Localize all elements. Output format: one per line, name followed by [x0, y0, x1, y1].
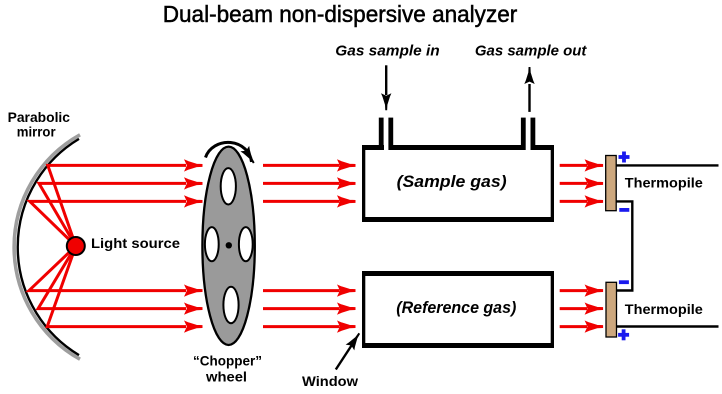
svg-text:Thermopile: Thermopile	[625, 175, 703, 191]
gas outlet stub	[521, 118, 526, 150]
beam ray 1 segment to thermopile	[560, 164, 587, 167]
thermopile 1 bar	[606, 156, 617, 211]
gas sample in arrow	[385, 65, 387, 95]
beam ray 4 segment to thermopile	[560, 289, 587, 292]
ray 3	[30, 201, 186, 246]
beam ray 6 segment after chopper	[263, 325, 340, 328]
thermopile 2 wire	[617, 325, 719, 327]
svg-text:(Sample gas): (Sample gas)	[397, 172, 507, 191]
ray 2	[39, 183, 186, 246]
beam ray 5 segment after chopper	[263, 307, 340, 310]
plus sign upper	[619, 152, 630, 163]
chopper hole left	[205, 227, 219, 261]
beam ray 1 segment after chopper	[263, 164, 340, 167]
svg-text:Window: Window	[302, 373, 358, 389]
svg-text:Light source: Light source	[91, 235, 180, 251]
minus sign upper	[619, 208, 629, 212]
chopper hole bottom	[223, 287, 238, 323]
chopper wheel disk	[202, 147, 254, 345]
light source	[67, 237, 85, 255]
svg-text:Gas sample out: Gas sample out	[475, 43, 588, 60]
parabolic mirror (gray band)	[14, 135, 80, 359]
thermopile 2 bar	[606, 282, 617, 337]
beam ray 2 segment to thermopile	[560, 182, 587, 185]
ray 5	[38, 246, 186, 309]
beam ray 3 segment to thermopile	[560, 200, 587, 203]
svg-text:Gas sample in: Gas sample in	[335, 43, 439, 60]
beam ray 4 segment after chopper	[263, 289, 340, 292]
svg-text:Thermopile: Thermopile	[625, 301, 703, 317]
beam ray 3 segment after chopper	[263, 200, 340, 203]
gas inlet stub	[379, 118, 384, 150]
beam ray 2 segment after chopper	[263, 182, 340, 185]
gas sample out arrow	[528, 84, 530, 112]
ray 4	[29, 246, 186, 291]
beam ray 6 segment to thermopile	[560, 325, 587, 328]
rotation arrow	[206, 142, 252, 162]
ray 1	[48, 165, 186, 246]
chopper hole top	[221, 168, 236, 204]
ray 6	[47, 246, 186, 327]
svg-text:(Reference gas): (Reference gas)	[396, 298, 516, 317]
thermopile 1 wires	[616, 164, 719, 166]
minus sign lower	[619, 280, 629, 284]
reference chamber walls	[362, 271, 554, 348]
svg-text:wheel: wheel	[205, 368, 247, 384]
light rays (red), each: diagonal from source + horizontal segment + arrowheads	[29, 160, 603, 332]
parabolic mirror (black face)	[18, 139, 79, 355]
svg-text:Dual-beam non-dispersive analy: Dual-beam non-dispersive analyzer	[163, 1, 518, 27]
chopper axle dot	[226, 242, 232, 248]
beam ray 5 segment to thermopile	[560, 307, 587, 310]
plus sign lower	[618, 329, 629, 340]
svg-text:mirror: mirror	[17, 123, 56, 139]
window pointer arrow	[336, 346, 352, 370]
chopper hole right	[239, 227, 253, 261]
svg-text:“Chopper”: “Chopper”	[193, 352, 262, 368]
sample chamber walls	[362, 118, 554, 222]
